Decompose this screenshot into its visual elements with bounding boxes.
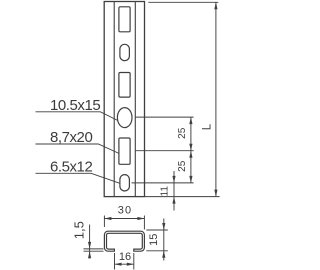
svg-text:16: 16 <box>119 251 131 263</box>
rail fold line left <box>113 2 115 197</box>
arrow 16 right <box>127 263 134 266</box>
arrow 30 left <box>104 217 111 220</box>
arrow 1.5 bottom <box>88 251 91 258</box>
arrow 25 bottom <box>189 176 192 183</box>
dimension line L <box>215 2 217 196</box>
dimension 15 <box>146 219 168 261</box>
slot hole 8.7x20 <box>119 138 130 164</box>
arrow 15 top <box>162 223 165 230</box>
dimension 16 <box>115 253 134 270</box>
arrow 25 top <box>189 117 192 124</box>
cross-section C profile <box>104 231 144 251</box>
label 6.5x12 leader <box>36 173 120 183</box>
arrow L bottom <box>214 190 217 197</box>
svg-text:25: 25 <box>177 127 188 139</box>
svg-text:10.5x15: 10.5x15 <box>50 97 100 114</box>
dimension 30 <box>104 216 144 230</box>
slot hole 3 <box>119 73 130 98</box>
arrow 1.5 top <box>88 242 91 249</box>
svg-text:15: 15 <box>148 234 160 246</box>
oval hole 6.5x12 <box>120 175 129 191</box>
front view rail outline <box>104 2 144 197</box>
dimension 1.5 <box>84 225 104 259</box>
dimension line 25/25 chain <box>190 117 192 183</box>
svg-text:8,7x20: 8,7x20 <box>50 129 92 146</box>
rail fold line right <box>134 2 136 197</box>
arrow 11 top <box>172 176 175 183</box>
svg-text:25: 25 <box>177 160 188 172</box>
svg-text:11: 11 <box>159 186 170 197</box>
svg-text:L: L <box>202 123 214 130</box>
extension line slot 8.7 center <box>135 150 193 152</box>
arrow L top <box>214 2 217 9</box>
oval hole 2 <box>120 44 129 60</box>
arrow 16 left <box>115 263 122 266</box>
arrow 15 bottom <box>162 251 165 258</box>
svg-text:6.5x12: 6.5x12 <box>50 158 92 175</box>
extension line top for L <box>148 1 218 3</box>
extension line oval 6.5 center <box>132 182 194 184</box>
extension line rail bottom <box>145 196 220 198</box>
dimension line 11 <box>173 171 175 211</box>
extension line hole 10.5 center <box>135 116 193 118</box>
label 10.5x15 leader <box>36 112 118 121</box>
arrow 25 middle down <box>189 151 192 158</box>
label 8,7x20 leader <box>36 144 120 154</box>
oval hole 10.5x15 <box>117 108 132 128</box>
svg-text:1,5: 1,5 <box>71 221 86 239</box>
slot hole 1 <box>119 7 130 32</box>
arrow 25 middle up <box>189 144 192 151</box>
arrow 30 right <box>137 217 144 220</box>
arrow 11 bottom <box>172 197 175 204</box>
svg-text:30: 30 <box>118 205 132 217</box>
